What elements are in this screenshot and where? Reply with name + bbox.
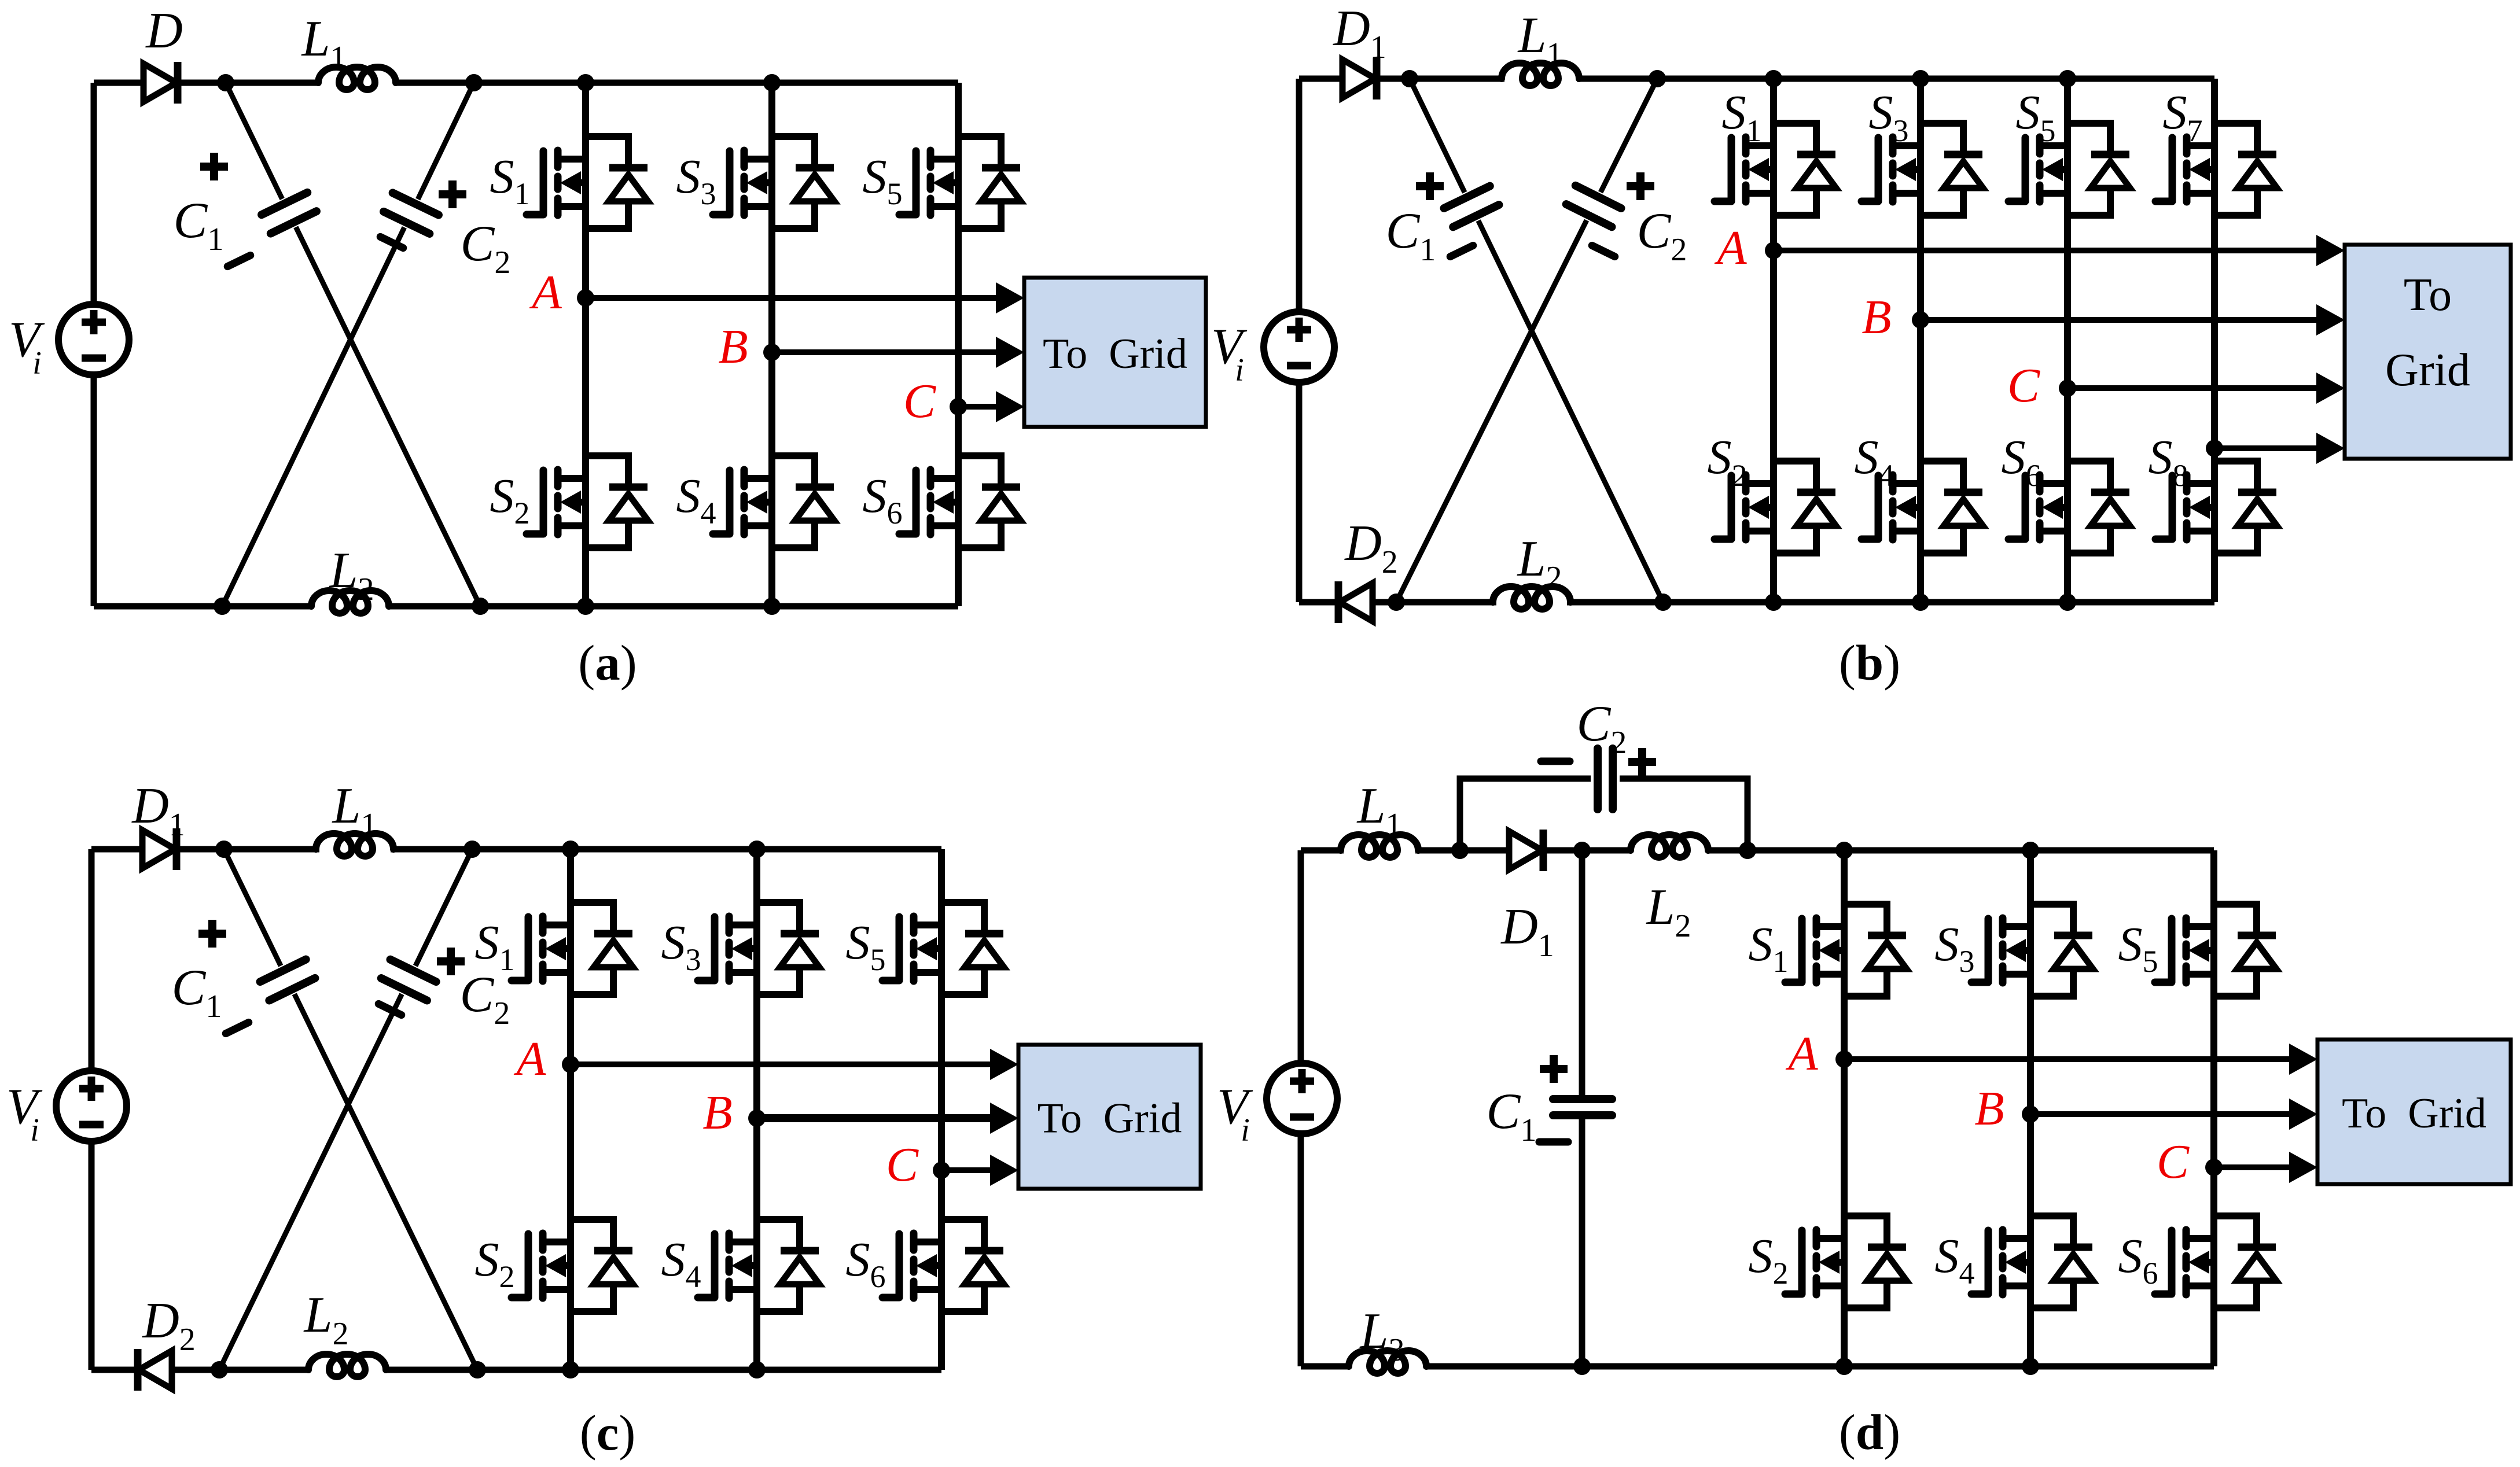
- svg-text:A: A: [1785, 1027, 1818, 1081]
- svg-text:B: B: [1862, 290, 1891, 344]
- svg-text:(b): (b): [1839, 635, 1900, 691]
- svg-text:D: D: [145, 3, 183, 59]
- svg-text:A: A: [1714, 221, 1747, 275]
- svg-text:Grid: Grid: [2385, 345, 2470, 396]
- svg-text:To Grid: To Grid: [1043, 330, 1187, 378]
- svg-text:To: To: [2404, 270, 2452, 320]
- svg-text:i: i: [1241, 1112, 1250, 1148]
- svg-text:C: C: [2157, 1135, 2190, 1189]
- svg-text:i: i: [30, 1112, 39, 1148]
- svg-text:(d): (d): [1839, 1404, 1900, 1460]
- svg-text:To Grid: To Grid: [2342, 1090, 2486, 1137]
- svg-text:A: A: [529, 266, 562, 319]
- svg-text:(a): (a): [578, 635, 637, 691]
- svg-text:(c): (c): [580, 1405, 636, 1461]
- svg-text:i: i: [32, 345, 42, 381]
- svg-text:C: C: [2007, 359, 2040, 412]
- svg-text:i: i: [1235, 352, 1244, 388]
- svg-text:C: C: [903, 374, 936, 428]
- svg-text:C: C: [886, 1138, 919, 1192]
- svg-text:To Grid: To Grid: [1038, 1095, 1182, 1142]
- svg-text:B: B: [718, 320, 748, 374]
- svg-text:B: B: [1974, 1082, 2004, 1136]
- svg-text:B: B: [702, 1086, 732, 1140]
- svg-text:A: A: [513, 1032, 546, 1086]
